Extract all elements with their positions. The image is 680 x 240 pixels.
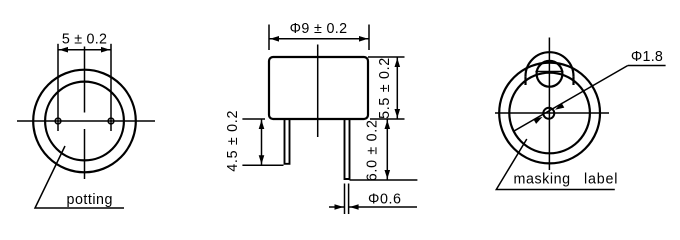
- dimension text dia9 ± 0.2: [290, 21, 348, 37]
- dia 9 extension line right: [368, 25, 370, 51]
- svg-text:potting: potting: [67, 192, 113, 208]
- dia1.8 leader line: [514, 66, 666, 132]
- label potting: [67, 192, 113, 208]
- dimension line 4.5±0.2: [259, 119, 265, 165]
- dia0.6 extension line left: [344, 184, 346, 215]
- dia1.8 arrow upper-right: [555, 103, 564, 110]
- tab hole small circle: [537, 61, 563, 87]
- svg-text:5.5 ± 0.2: 5.5 ± 0.2: [377, 57, 393, 119]
- label masking label: [514, 172, 619, 188]
- center hole circle: [543, 108, 554, 119]
- right lead pin: [345, 119, 350, 179]
- dimension line 5.5±0.2: [395, 57, 401, 119]
- svg-text:label: label: [584, 172, 618, 188]
- tab dome arc: [526, 52, 574, 76]
- svg-text:masking: masking: [514, 172, 571, 188]
- dimension line 6.0±0.2: [385, 119, 391, 180]
- right view horizontal center line: [495, 112, 609, 114]
- svg-text:6.0 ± 0.2: 6.0 ± 0.2: [365, 119, 381, 181]
- dimension text dia1.8: [631, 49, 663, 65]
- pin extension line right (through pin 2): [110, 44, 112, 131]
- left view inner circle: [45, 82, 124, 161]
- body rectangle (side view): [269, 57, 368, 119]
- tab dome left edge: [524, 76, 526, 85]
- 5.5 extension line top: [368, 56, 405, 58]
- dia0.6 arrows: [329, 204, 417, 210]
- pin extension line left (through pin 1): [57, 44, 59, 131]
- dimension text 5.5 ± 0.2 (rotated): [377, 57, 393, 119]
- pin 2 (right terminal): [108, 118, 114, 124]
- svg-text:Φ0.6: Φ0.6: [368, 192, 401, 208]
- dimension text 4.5 ± 0.2 (rotated): [225, 110, 241, 172]
- 6.0 extension line bottom: [350, 179, 418, 181]
- 4.5 extension line top: [242, 118, 265, 120]
- middle vertical center line: [317, 45, 319, 138]
- leader line to potting: [35, 146, 124, 208]
- svg-text:Φ1.8: Φ1.8: [631, 49, 663, 65]
- dia0.6 extension line right: [348, 184, 350, 215]
- dimension line 5±0.2: [58, 47, 111, 53]
- svg-text:4.5 ± 0.2: 4.5 ± 0.2: [225, 110, 241, 172]
- left view horizontal center line: [17, 120, 155, 122]
- dimension text 6.0 ± 0.2 (rotated): [365, 119, 381, 181]
- 5.5 extension line bottom: [370, 118, 405, 120]
- right view outer case circle (top view): [499, 63, 600, 164]
- left lead pin: [285, 119, 290, 164]
- dimension text dia0.6: [368, 192, 401, 208]
- svg-text:Φ9 ± 0.2: Φ9 ± 0.2: [290, 21, 348, 37]
- dia1.8 arrow lower-left: [533, 117, 542, 124]
- dimension text 5 ± 0.2: [62, 31, 107, 47]
- svg-text:5 ± 0.2: 5 ± 0.2: [62, 31, 107, 47]
- 4.5 extension line bottom: [242, 164, 283, 166]
- pin 1 (left terminal): [55, 118, 61, 124]
- dimension line dia9±0.2: [269, 36, 369, 42]
- right view inner circle: [509, 73, 590, 154]
- tab dome right edge: [572, 76, 574, 85]
- right view vertical center line: [548, 38, 550, 171]
- dia 9 extension line left: [268, 25, 270, 51]
- left view vertical center line (with gap): [84, 47, 86, 180]
- leader lines to masking label: [496, 139, 615, 190]
- left view outer case circle (bottom view): [33, 70, 136, 173]
- tab hole horizontal mark: [535, 71, 563, 73]
